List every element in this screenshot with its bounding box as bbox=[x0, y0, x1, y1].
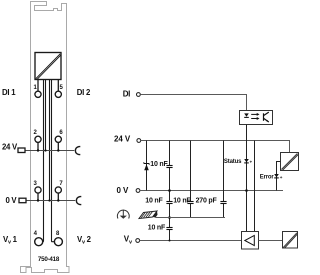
wire filter branch 2 bbox=[190, 141, 192, 218]
junction dots 24V line bbox=[37, 149, 60, 151]
svg-text:10 nF: 10 nF bbox=[173, 197, 191, 204]
junction dot 0V x169 bbox=[168, 189, 171, 192]
wire opto output / status branch bbox=[246, 125, 248, 232]
wire 24V rail bbox=[141, 141, 290, 153]
dc-dc converter U3 box bbox=[281, 153, 299, 171]
svg-text:DI 1: DI 1 bbox=[2, 88, 16, 97]
capacitor C4 10nF plates bbox=[166, 228, 172, 230]
svg-text:Vv 2: Vv 2 bbox=[77, 235, 92, 246]
wire w3 box to 0V line bbox=[49, 80, 51, 201]
optocoupler phototransistor bbox=[264, 112, 269, 122]
svg-text:6: 6 bbox=[59, 130, 63, 136]
terminal 5 contact circle bbox=[55, 91, 61, 97]
junction dot opto-0V bbox=[245, 189, 248, 192]
wire stem terminal 1 to box bbox=[37, 80, 39, 92]
wire driver to bus interface bbox=[259, 240, 283, 242]
svg-text:2: 2 bbox=[34, 130, 38, 136]
wire suppressor branch bbox=[146, 141, 148, 191]
junction dot Vv x169 bbox=[169, 240, 171, 242]
wire w2 box to 24V line bbox=[45, 80, 47, 151]
stem terminal 3 to 0V line bbox=[37, 193, 39, 201]
wire 24V to driver box bbox=[254, 141, 256, 232]
stem terminal 6 to 24V line bbox=[57, 142, 59, 150]
wire filter branch 1 bbox=[169, 141, 171, 241]
wire filter branch 3 bbox=[223, 141, 225, 218]
svg-text:24 V: 24 V bbox=[114, 134, 131, 143]
terminal 6 contact circle bbox=[55, 136, 61, 142]
svg-text:8: 8 bbox=[56, 231, 60, 237]
electronics box U1 bbox=[35, 53, 61, 80]
node Vv terminal circle bbox=[136, 239, 140, 243]
spring contact 24V bbox=[75, 147, 80, 155]
24V line bbox=[25, 150, 74, 152]
wire shield rail bbox=[156, 217, 226, 219]
svg-text:7: 7 bbox=[59, 181, 63, 187]
driver U4 box with triangle bbox=[242, 232, 259, 250]
svg-text:24 V: 24 V bbox=[2, 142, 18, 151]
clamp square 0V bbox=[19, 198, 26, 203]
error LED D3 bbox=[274, 174, 279, 178]
svg-text:10 nF: 10 nF bbox=[148, 224, 166, 231]
wire w1 box to terminal 4 bbox=[42, 80, 45, 242]
svg-text:DI 2: DI 2 bbox=[77, 88, 91, 97]
svg-text:0 V: 0 V bbox=[117, 186, 129, 195]
svg-text:270 pF: 270 pF bbox=[196, 197, 218, 204]
shield symbol bbox=[139, 211, 158, 219]
capacitor C0 10nF plates bbox=[166, 166, 172, 168]
terminal 4 contact circle bbox=[35, 238, 43, 246]
svg-text:+: + bbox=[250, 159, 253, 164]
wire DI line bbox=[140, 95, 246, 111]
svg-text:+: + bbox=[280, 175, 283, 180]
bus interface U5 box bbox=[283, 232, 298, 249]
wire 0V rail bbox=[140, 190, 283, 192]
svg-text:Vv 1: Vv 1 bbox=[3, 235, 18, 246]
capacitor C2 10nF plates bbox=[187, 202, 193, 204]
svg-text:4: 4 bbox=[34, 231, 38, 237]
terminal 2 contact circle bbox=[35, 136, 41, 142]
earth functional ground symbol bbox=[117, 210, 129, 219]
terminal 3 contact circle bbox=[35, 187, 41, 193]
stem terminal 7 to 0V line bbox=[57, 193, 59, 201]
svg-text:Status: Status bbox=[224, 159, 242, 165]
terminal 7 contact circle bbox=[55, 187, 61, 193]
terminal 1 contact circle bbox=[35, 91, 41, 97]
0V line bbox=[26, 200, 75, 202]
svg-text:10 nF: 10 nF bbox=[150, 161, 168, 168]
svg-text:5: 5 bbox=[60, 85, 64, 91]
svg-text:Error: Error bbox=[260, 175, 275, 181]
svg-text:10 nF: 10 nF bbox=[145, 197, 163, 204]
clamp square 24V bbox=[18, 148, 25, 153]
node 24V terminal circle bbox=[137, 139, 141, 143]
capacitor C3 270pF plates bbox=[220, 202, 226, 204]
svg-text:Vv: Vv bbox=[124, 235, 133, 246]
wire w4 box to terminal 8 bbox=[52, 80, 55, 242]
optocoupler LED bbox=[244, 113, 249, 117]
svg-text:3: 3 bbox=[34, 181, 38, 187]
status LED D2 bbox=[244, 159, 249, 163]
svg-text:750-418: 750-418 bbox=[38, 256, 60, 263]
capacitor C1 10nF plates bbox=[166, 202, 172, 204]
terminal 8 contact circle bbox=[54, 238, 62, 246]
zener diode D1 bbox=[144, 162, 149, 170]
svg-text:DI: DI bbox=[123, 89, 130, 98]
node DI terminal circle bbox=[137, 93, 141, 97]
wire stem terminal 5 to box bbox=[57, 80, 59, 92]
stem terminal 2 to 24V line bbox=[37, 142, 39, 150]
module outline 750-418 housing bbox=[21, 2, 70, 273]
spring contact 0V bbox=[76, 197, 81, 205]
svg-text:1: 1 bbox=[34, 85, 38, 91]
optocoupler U2 box bbox=[240, 111, 273, 125]
wire error branch bbox=[277, 162, 281, 191]
junction dot shield x169 bbox=[168, 216, 171, 219]
svg-text:0 V: 0 V bbox=[6, 196, 18, 205]
wire Vv rail bbox=[140, 240, 242, 242]
node 0V terminal circle bbox=[136, 189, 140, 193]
optocoupler light arrows bbox=[251, 113, 259, 120]
junction dots 0V line bbox=[37, 199, 60, 201]
